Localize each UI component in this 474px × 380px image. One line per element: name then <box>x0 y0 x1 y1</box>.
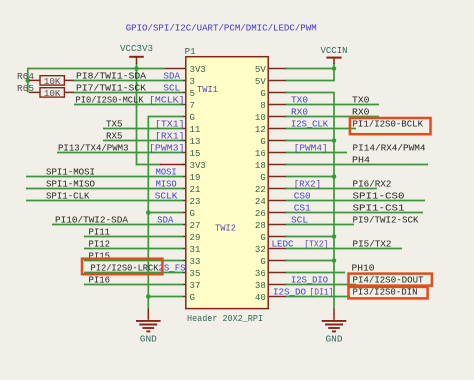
svg-text:SPI1-MISO: SPI1-MISO <box>46 179 95 190</box>
pin 31 (31) left stub <box>182 248 186 250</box>
wire left row 18 (pin 37) <box>84 284 183 286</box>
svg-text:SDA: SDA <box>164 71 181 82</box>
wire vertical pull-up feed at x=27.8 <box>27 68 29 93</box>
pin 1 (3V3) left stub <box>165 68 186 70</box>
svg-text:[TX2]: [TX2] <box>304 239 328 250</box>
wire right row 5 (pin 12) <box>286 128 356 130</box>
svg-text:24: 24 <box>255 196 266 207</box>
wire right row 19 (pin 40) <box>286 296 350 298</box>
svg-text:26: 26 <box>255 208 266 219</box>
pin 7 (7) left stub <box>182 104 186 106</box>
svg-text:PH4: PH4 <box>352 155 370 166</box>
svg-text:SCL: SCL <box>291 215 308 226</box>
svg-text:PI13/TX4/PWM3: PI13/TX4/PWM3 <box>58 143 129 154</box>
pin 10 (10) right stub <box>268 116 287 118</box>
svg-text:PI9/TWI2-SCK: PI9/TWI2-SCK <box>353 215 419 226</box>
svg-text:[DI1]: [DI1] <box>310 287 334 298</box>
svg-text:SCL: SCL <box>164 83 181 94</box>
wire left row 0 (pin 1) <box>28 68 165 70</box>
pin 30 (G) right stub <box>268 236 287 238</box>
svg-text:[PWM4]: [PWM4] <box>294 143 328 154</box>
svg-text:R65: R65 <box>17 84 34 94</box>
power VCC3V3 <box>120 43 153 64</box>
pin 8 (8) right stub <box>268 104 287 106</box>
wire left row 4 (pin 9) <box>148 116 183 118</box>
pin 27 (27) left stub <box>182 224 186 226</box>
pin 36 (36) right stub <box>268 272 287 274</box>
pin 9 (G) left stub <box>182 116 186 118</box>
svg-text:PI11: PI11 <box>89 227 111 238</box>
svg-text:PH10: PH10 <box>352 263 375 274</box>
wire left row 5 (pin 11) <box>103 128 183 130</box>
svg-text:[MCLK]: [MCLK] <box>149 95 185 106</box>
svg-text:VCCIN: VCCIN <box>321 45 348 56</box>
pin 11 (11) left stub <box>182 128 186 130</box>
svg-text:G: G <box>260 136 266 147</box>
svg-text:I2S_DO: I2S_DO <box>273 287 306 298</box>
svg-text:27: 27 <box>190 220 201 231</box>
wire GND rail left vertical <box>147 116 149 309</box>
wire right row 17 (pin 36) <box>286 272 345 274</box>
junction GND pin30 <box>332 234 337 239</box>
junction GND pin14 <box>332 138 337 143</box>
svg-text:10K: 10K <box>44 77 61 87</box>
svg-text:29: 29 <box>190 232 201 243</box>
svg-text:I2S_CLK: I2S_CLK <box>291 119 328 130</box>
svg-text:G: G <box>260 172 266 183</box>
wire left row 17 (pin 35) <box>84 272 183 274</box>
svg-text:[TX1]: [TX1] <box>155 119 185 130</box>
svg-text:G: G <box>190 292 196 303</box>
svg-text:PI2/I2S0-LRCK: PI2/I2S0-LRCK <box>91 263 159 274</box>
svg-text:TX0: TX0 <box>352 95 370 106</box>
svg-text:23: 23 <box>190 196 201 207</box>
junction pull-up row <box>26 78 31 83</box>
wire right row 18 (pin 38) <box>286 284 356 286</box>
junction GND pin25 <box>146 210 151 215</box>
pin 4 (5V) right stub <box>268 80 287 82</box>
svg-text:RX5: RX5 <box>106 131 123 142</box>
pin 28 (28) right stub <box>268 224 287 226</box>
svg-text:SPI1-CLK: SPI1-CLK <box>46 191 90 202</box>
junction GND pin20 <box>332 174 337 179</box>
wire left row 3 (pin 7) <box>74 104 183 106</box>
pin 17 (3V3) left stub <box>182 164 186 166</box>
pin 14 (G) right stub <box>268 140 287 142</box>
svg-text:5: 5 <box>190 88 196 99</box>
svg-text:19: 19 <box>190 172 201 183</box>
svg-text:11: 11 <box>190 124 201 135</box>
pin 34 (G) right stub <box>268 260 287 262</box>
svg-text:8: 8 <box>260 100 266 111</box>
wire right row 13 (pin 28) <box>286 224 354 226</box>
wire VCC3V3 elbow to pin 17 <box>136 164 161 166</box>
wire left row 15 (pin 31) <box>84 248 183 250</box>
wire left row 1 (pin 3) <box>73 80 183 82</box>
svg-text:3V3: 3V3 <box>190 64 207 75</box>
svg-text:Header 20X2_RPI: Header 20X2_RPI <box>187 313 263 324</box>
wire VCCIN vertical (rows 0-1) <box>333 63 335 81</box>
wire left row 14 (pin 29) <box>84 236 183 238</box>
wire right row 3 (pin 8) <box>286 104 379 106</box>
svg-text:TWI2: TWI2 <box>215 222 236 233</box>
pin 33 (33) left stub <box>182 260 186 262</box>
wire right row 12 (pin 26) <box>286 212 423 214</box>
svg-text:28: 28 <box>255 220 266 231</box>
pin 13 (13) left stub <box>182 140 186 142</box>
svg-text:PI16: PI16 <box>89 275 111 286</box>
svg-text:15: 15 <box>190 148 201 159</box>
svg-text:G: G <box>260 232 266 243</box>
svg-text:21: 21 <box>190 184 201 195</box>
wire left row 11 (pin 23) <box>26 200 183 202</box>
pin 38 (38) right stub <box>268 284 287 286</box>
svg-text:16: 16 <box>255 148 266 159</box>
pin 23 (23) left stub <box>182 200 186 202</box>
svg-text:[PWM3]: [PWM3] <box>149 143 185 154</box>
svg-text:35: 35 <box>190 268 201 279</box>
wire right row 4 (pin 10) <box>286 116 379 118</box>
junction GND pin39 <box>146 294 151 299</box>
power VCCIN <box>321 45 348 64</box>
connector P1 body (Header 20X2_RPI) <box>186 57 268 309</box>
svg-text:5V: 5V <box>255 64 266 75</box>
svg-text:CS0: CS0 <box>294 191 311 202</box>
wire right row 8 (pin 18) <box>286 164 428 166</box>
svg-text:31: 31 <box>190 244 201 255</box>
pin 5 (5) left stub <box>182 92 186 94</box>
wire left row 2 (pin 5) <box>73 92 183 94</box>
wire right row 7 (pin 16) <box>286 152 347 154</box>
svg-text:10K: 10K <box>44 89 61 99</box>
pin 32 (32) right stub <box>268 248 287 250</box>
pin 35 (35) left stub <box>182 272 186 274</box>
svg-text:PI5/TX2: PI5/TX2 <box>353 239 392 250</box>
svg-text:PI1/I2S0-BCLK: PI1/I2S0-BCLK <box>353 119 424 130</box>
svg-text:3V3: 3V3 <box>190 160 207 171</box>
svg-text:38: 38 <box>255 280 266 291</box>
ground GND right <box>322 309 347 345</box>
svg-text:5V: 5V <box>255 76 266 87</box>
svg-text:PI8/TWI1-SDA: PI8/TWI1-SDA <box>76 71 146 82</box>
pin 15 (15) left stub <box>182 152 186 154</box>
wire left row 9 (pin 19) <box>26 176 183 178</box>
svg-text:I2S_DIO: I2S_DIO <box>291 275 328 286</box>
junction VCC3V3/pin1 <box>134 66 139 71</box>
ground GND left <box>136 309 161 345</box>
svg-text:[RX2]: [RX2] <box>294 179 322 190</box>
svg-text:TWI1: TWI1 <box>197 84 218 95</box>
svg-text:MOSI: MOSI <box>156 167 177 178</box>
pin 26 (26) right stub <box>268 212 287 214</box>
svg-text:PI10/TWI2-SDA: PI10/TWI2-SDA <box>55 215 128 226</box>
svg-text:GND: GND <box>326 333 343 344</box>
resistor R64 10K <box>17 72 74 87</box>
wire right row 10 (pin 22) <box>286 188 377 190</box>
wire left row 6 (pin 13) <box>103 140 183 142</box>
svg-text:3: 3 <box>190 76 196 87</box>
wire right row 16 (pin 34) <box>286 260 334 262</box>
svg-text:G: G <box>260 88 266 99</box>
svg-text:R64: R64 <box>17 72 34 82</box>
wire right row 1 (pin 4) <box>286 80 334 82</box>
pin 22 (22) right stub <box>268 188 287 190</box>
svg-text:12: 12 <box>255 124 266 135</box>
highlight box PI1/I2S0-BCLK <box>350 118 431 134</box>
svg-text:PI7/TWI1-SCK: PI7/TWI1-SCK <box>76 83 146 94</box>
highlight box PI3/I2S0-DIN <box>349 287 428 299</box>
svg-text:RX0: RX0 <box>291 107 308 118</box>
pin 21 (21) left stub <box>182 188 186 190</box>
wire left row 19 (pin 39) <box>148 296 183 298</box>
svg-text:36: 36 <box>255 268 266 279</box>
resistor R65 10K <box>17 84 74 99</box>
highlight box PI4/I2S0-DOUT <box>349 274 432 286</box>
svg-text:CS1: CS1 <box>294 203 311 214</box>
pin 25 (G) left stub <box>182 212 186 214</box>
wire left row 12 (pin 25) <box>148 212 183 214</box>
junction VCCIN/pin2 <box>332 66 337 71</box>
svg-text:MISO: MISO <box>156 179 177 190</box>
pin 12 (12) right stub <box>268 128 287 130</box>
pin 24 (24) right stub <box>268 200 287 202</box>
wire VCC3V3 rail vertical <box>136 63 138 165</box>
wire right row 14 (pin 30) <box>286 236 334 238</box>
svg-text:PI4/I2S0-DOUT: PI4/I2S0-DOUT <box>353 275 424 286</box>
svg-text:G: G <box>190 112 196 123</box>
wire right row 0 (pin 2) <box>286 68 334 70</box>
svg-text:VCC3V3: VCC3V3 <box>120 43 153 54</box>
svg-text:SPI1-CS0: SPI1-CS0 <box>353 191 405 202</box>
pin 6 (G) right stub <box>268 92 287 94</box>
svg-text:7: 7 <box>190 100 195 111</box>
svg-text:33: 33 <box>190 256 201 267</box>
svg-text:37: 37 <box>190 280 201 291</box>
svg-text:G: G <box>190 208 196 219</box>
svg-text:SDA: SDA <box>157 215 173 226</box>
wire right row 15 (pin 32) <box>286 248 402 250</box>
svg-text:[RX1]: [RX1] <box>155 131 185 142</box>
pin 19 (19) left stub <box>182 176 186 178</box>
svg-text:G: G <box>260 256 266 267</box>
svg-text:PI0/I2S0-MCLK: PI0/I2S0-MCLK <box>76 95 144 106</box>
svg-text:PI6/RX2: PI6/RX2 <box>353 179 392 190</box>
svg-text:22: 22 <box>255 184 266 195</box>
pin 20 (G) right stub <box>268 176 287 178</box>
pin 16 (16) right stub <box>268 152 287 154</box>
wire right row 11 (pin 24) <box>286 200 425 202</box>
pin 39 (G) left stub <box>182 296 186 298</box>
pin 40 (40) right stub <box>268 296 287 298</box>
pin 2 (5V) right stub <box>268 68 287 70</box>
svg-text:LEDC: LEDC <box>272 239 294 250</box>
junction GND pin34 <box>332 258 337 263</box>
svg-text:SPI1-MOSI: SPI1-MOSI <box>46 167 95 178</box>
wire right row 9 (pin 20) <box>286 176 334 178</box>
svg-text:18: 18 <box>255 160 266 171</box>
svg-text:GND: GND <box>140 333 157 344</box>
wire right row 6 (pin 14) <box>286 140 334 142</box>
pin 37 (37) left stub <box>182 284 186 286</box>
wire left row 16 (pin 33) <box>84 260 183 262</box>
pin 3 (3) left stub <box>182 80 186 82</box>
svg-text:13: 13 <box>190 136 201 147</box>
svg-text:PI14/RX4/PWM4: PI14/RX4/PWM4 <box>353 143 426 154</box>
svg-text:TX5: TX5 <box>106 119 123 130</box>
svg-text:SPI1-CS1: SPI1-CS1 <box>353 203 405 214</box>
wire GND rail right vertical <box>333 92 335 309</box>
wire left row 7 (pin 15) <box>57 152 183 154</box>
svg-text:GPIO/SPI/I2C/UART/PCM/DMIC/LED: GPIO/SPI/I2C/UART/PCM/DMIC/LEDC/PWM <box>126 23 317 34</box>
pin 29 (29) left stub <box>182 236 186 238</box>
svg-text:10: 10 <box>255 112 266 123</box>
svg-text:SCLK: SCLK <box>155 191 178 202</box>
highlight box PI2/I2S0-LRCK <box>82 259 162 275</box>
wire right row 2 (pin 6) <box>286 92 334 94</box>
svg-text:32: 32 <box>255 244 266 255</box>
svg-text:RX0: RX0 <box>352 107 370 118</box>
wire left row 13 (pin 27) <box>52 224 183 226</box>
svg-text:P1: P1 <box>185 46 196 57</box>
svg-text:TX0: TX0 <box>291 95 308 106</box>
svg-text:40: 40 <box>255 292 266 303</box>
wire left row 10 (pin 21) <box>26 188 183 190</box>
svg-text:PI12: PI12 <box>89 239 111 250</box>
pin 18 (18) right stub <box>268 164 287 166</box>
